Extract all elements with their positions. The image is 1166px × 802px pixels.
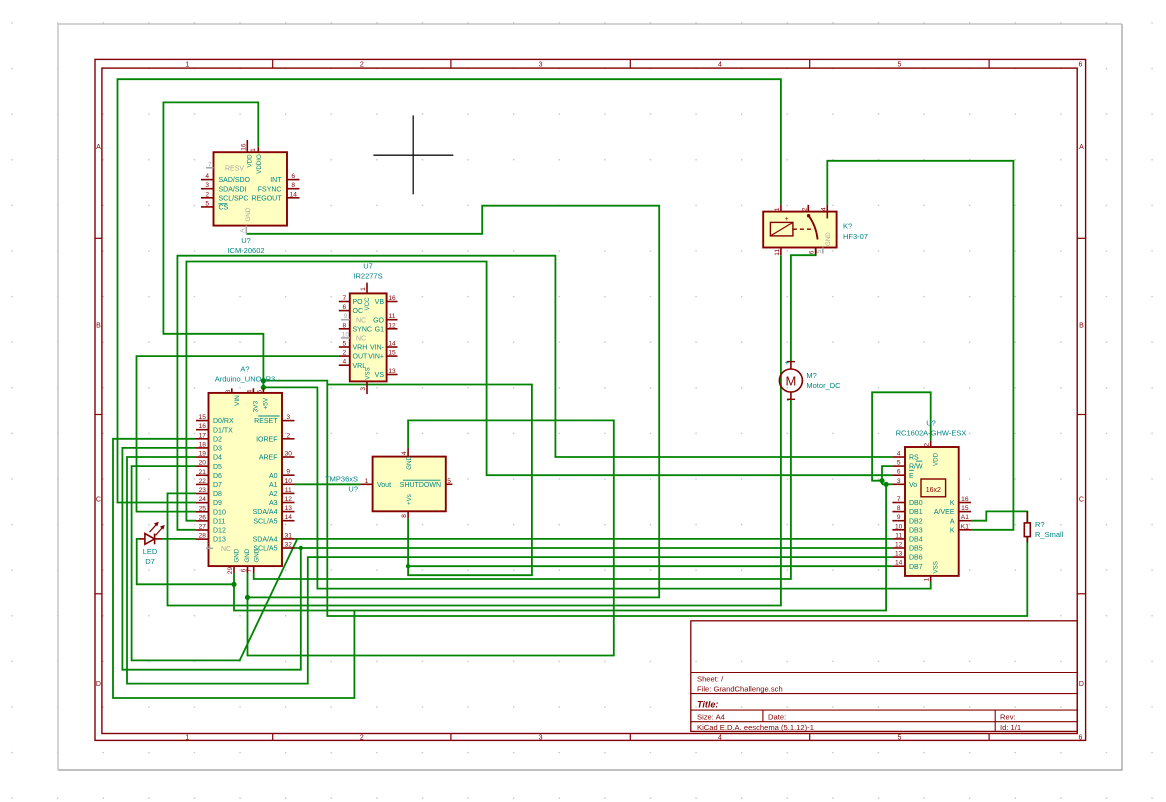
svg-text:HF3-07: HF3-07 [843,232,868,241]
svg-text:D: D [96,681,101,688]
svg-text:SDA/SDI: SDA/SDI [219,186,247,193]
svg-text:25: 25 [199,505,207,512]
svg-text:LED: LED [143,547,158,556]
led D7 [145,534,155,545]
ic U? TMP36xS [373,457,446,512]
svg-text:Vout: Vout [377,482,391,489]
svg-text:6: 6 [809,250,816,254]
svg-text:A: A [96,144,101,151]
svg-text:A?: A? [240,365,249,374]
svg-text:24: 24 [199,496,207,503]
svg-text:PO: PO [353,299,364,306]
svg-text:4: 4 [897,451,901,458]
svg-text:A/VEE: A/VEE [934,509,955,516]
svg-text:GND: GND [825,232,832,246]
svg-text:VRH: VRH [353,345,368,352]
svg-text:3: 3 [539,62,543,69]
svg-text:D4: D4 [213,455,222,462]
relay coil box [770,222,793,236]
svg-text:6: 6 [1079,62,1083,69]
junction DB5 [299,546,303,550]
svg-text:GND: GND [233,548,240,562]
svg-text:5: 5 [447,478,451,485]
svg-text:1: 1 [185,734,189,741]
svg-text:4: 4 [718,62,722,69]
svg-text:1: 1 [250,148,257,152]
svg-text:Size: A4: Size: A4 [697,712,725,721]
svg-text:Vo: Vo [909,482,917,489]
svg-text:VDD: VDD [932,452,939,466]
svg-text:K: K [950,527,955,534]
svg-text:22: 22 [199,478,207,485]
svg-text:7: 7 [897,496,901,503]
svg-text:4: 4 [205,173,209,180]
svg-text:19: 19 [199,451,207,458]
svg-text:U?: U? [926,419,936,428]
svg-text:REGOUT: REGOUT [252,195,283,202]
svg-text:TMP36xS: TMP36xS [325,475,358,484]
svg-text:6: 6 [1079,734,1083,741]
svg-text:RESET: RESET [254,418,278,425]
svg-text:21: 21 [199,469,207,476]
svg-text:8: 8 [897,505,901,512]
svg-text:D8: D8 [213,491,222,498]
svg-text:CS: CS [219,205,229,212]
svg-text:3: 3 [205,182,209,189]
svg-text:3V3: 3V3 [253,401,260,413]
svg-text:VIN+: VIN+ [368,354,384,361]
svg-text:4: 4 [820,207,827,211]
svg-text:SHUTDOWN: SHUTDOWN [400,482,441,489]
sheet frame inner border [102,68,1077,733]
svg-text:A: A [1079,144,1084,151]
svg-text:12: 12 [285,496,293,503]
svg-text:13: 13 [895,551,903,558]
svg-text:Arduino_UNO_R3: Arduino_UNO_R3 [215,375,275,384]
wire Arduino D8 to relay pin11 [168,255,781,605]
svg-text:Date:: Date: [768,712,786,721]
wire LED cathode to D13 [162,538,196,540]
svg-text:D2: D2 [213,436,222,443]
svg-text:14: 14 [895,560,903,567]
svg-text:20: 20 [199,460,207,467]
ic A? Arduino UNO R3 [209,393,283,566]
svg-text:5: 5 [897,460,901,467]
svg-text:9: 9 [286,469,290,476]
svg-text:9: 9 [344,313,348,320]
svg-text:DB6: DB6 [909,555,923,562]
svg-text:R?: R? [1035,520,1045,529]
svg-text:1: 1 [774,207,781,211]
svg-text:GND: GND [245,207,252,221]
svg-text:8: 8 [225,389,232,393]
svg-text:D6: D6 [213,473,222,480]
wire +5V branch B to LCD VSS [263,387,930,588]
relay pins [780,205,782,212]
svg-text:11: 11 [389,313,396,320]
svg-text:+: + [785,358,790,367]
svg-text:3: 3 [897,478,901,485]
wire LCD Vo junction link [881,481,883,485]
svg-text:16: 16 [199,423,207,430]
Arduino pins [196,420,209,422]
svg-text:4: 4 [718,734,722,741]
svg-text:18: 18 [199,441,207,448]
wire Arduino D2 to GND nest [113,439,354,698]
svg-text:Sheet: /: Sheet: / [697,675,724,684]
relay K? HF3-07 [763,212,836,248]
svg-text:1: 1 [924,578,931,582]
svg-text:D7: D7 [213,482,222,489]
wire Arduino D12 to LCD RS [177,256,892,530]
wire Arduino D11 to LCD E [186,262,892,521]
junction Vo b [884,482,889,487]
U7 pins [366,283,368,294]
svg-text:+5V: +5V [263,397,270,409]
svg-text:NC: NC [221,546,231,553]
svg-text:RC1602A-GHW-ESX: RC1602A-GHW-ESX [896,429,967,438]
lcd U? RC1602A-GHW-ESX [905,447,959,576]
wire LED anode loop to GND29 [137,539,234,584]
svg-text:5: 5 [256,389,263,393]
junction Vo a [879,478,884,483]
wire LCD DB5 line [301,547,893,549]
svg-text:14: 14 [388,341,396,348]
crosshair marker [373,154,453,156]
svg-text:DB2: DB2 [909,518,923,525]
svg-text:2: 2 [286,432,290,439]
LCD pins [892,456,905,458]
svg-text:A0: A0 [269,473,278,480]
relay dashed link [793,228,812,230]
svg-text:+: + [785,216,789,223]
svg-text:GO: GO [373,317,384,324]
svg-text:K1: K1 [961,523,969,530]
svg-text:U?: U? [348,485,358,494]
svg-text:3: 3 [286,414,290,421]
svg-text:D3: D3 [213,446,222,453]
svg-text:VDD: VDD [247,154,254,168]
svg-text:1: 1 [185,62,189,69]
wire motor plus to relay pin6 [791,248,816,362]
svg-text:2: 2 [924,443,931,447]
svg-text:OUT: OUT [353,354,369,361]
svg-text:A1: A1 [961,514,969,521]
resistor R? R_Small [1024,523,1030,537]
svg-text:VIN: VIN [234,395,241,406]
svg-text:13: 13 [285,505,293,512]
svg-text:5: 5 [205,200,209,207]
svg-text:31: 31 [285,532,293,539]
svg-text:C: C [1079,497,1084,504]
svg-text:GND: GND [406,456,413,470]
svg-text:DB7: DB7 [909,564,923,571]
wire GND6 to ICM GND [246,206,659,598]
svg-text:A2: A2 [269,491,278,498]
svg-text:VB: VB [375,299,385,306]
junction DB7 on +Vs riser [406,564,410,568]
svg-text:+Vs: +Vs [406,494,413,505]
svg-text:10: 10 [285,478,293,485]
svg-text:6: 6 [291,173,295,180]
frame row ticks [95,237,102,239]
wire LCD R/W loop [882,466,892,481]
wire LCD DB4 line [295,538,893,540]
svg-text:26: 26 [199,514,207,521]
svg-text:1: 1 [208,542,212,549]
svg-text:8: 8 [291,182,295,189]
svg-text:NC: NC [356,336,366,343]
svg-text:RS: RS [909,455,919,462]
svg-text:5: 5 [897,734,901,741]
svg-text:1: 1 [365,478,369,485]
relay armature [809,216,818,240]
svg-text:SDA/A4: SDA/A4 [253,509,278,516]
svg-text:U?: U? [241,236,251,245]
ic U? ICM-20602 [214,152,288,225]
wire relay pin1 to Arduino D9 [118,79,781,502]
svg-text:VIN-: VIN- [370,345,385,352]
svg-text:11: 11 [774,249,781,256]
svg-text:3: 3 [360,387,367,391]
svg-text:FSYNC: FSYNC [258,186,282,193]
svg-text:B: B [96,322,101,329]
svg-text:DB4: DB4 [909,537,923,544]
wire Arduino GND pin29 down to Vo riser [234,484,886,610]
svg-text:R_Small: R_Small [1035,530,1064,539]
svg-text:10: 10 [342,331,350,338]
svg-text:23: 23 [199,487,207,494]
svg-text:OC: OC [353,308,364,315]
motor M? Motor_DC [779,369,802,392]
svg-text:Id: 1/1: Id: 1/1 [1000,723,1021,732]
svg-text:14: 14 [285,514,293,521]
svg-text:32: 32 [285,542,293,549]
svg-text:29: 29 [227,567,234,575]
svg-text:2: 2 [205,191,209,198]
title block [691,621,1077,732]
svg-text:D: D [1079,681,1084,688]
svg-text:A1: A1 [269,482,278,489]
wire TMP36 Vout to Arduino A1 [295,483,361,485]
svg-text:SAD/SDO: SAD/SDO [219,177,251,184]
svg-text:DB0: DB0 [909,500,923,507]
svg-text:KiCad E.D.A. eeschema (5.1.12: KiCad E.D.A. eeschema (5.1.12)-1 [697,723,814,732]
svg-text:2: 2 [801,207,808,211]
svg-text:INT: INT [270,177,282,184]
wire Arduino GND pin6 to TMP36 GND [248,420,614,655]
junction +5V lower [261,385,266,390]
svg-text:16: 16 [388,295,396,302]
sheet frame outer border [95,59,1086,740]
svg-text:1: 1 [360,287,367,291]
svg-text:VCC: VCC [364,297,371,311]
wire Arduino D3 riser to pin32 DB5 [122,448,300,670]
wire U7 VSS bottom line to TMP36 +Vs [327,385,532,576]
svg-text:AREF: AREF [259,455,278,462]
svg-text:M: M [785,374,796,389]
svg-text:2: 2 [360,734,364,741]
wire Arduino D4 to LCD DB6 [127,457,892,684]
svg-text:D1/TX: D1/TX [213,427,233,434]
svg-text:B: B [1079,322,1084,329]
svg-text:10: 10 [895,523,903,530]
svg-text:D7: D7 [145,557,155,566]
wire LCD DB7 line [408,565,892,567]
wire relay pin4 to LCD K1 [827,161,1013,530]
junction GND6 [245,595,250,600]
svg-text:NC: NC [356,317,366,324]
svg-text:12: 12 [895,542,903,549]
svg-text:Rev:: Rev: [1000,712,1016,721]
svg-text:E: E [909,473,914,480]
svg-text:5: 5 [897,62,901,69]
svg-text:RESV: RESV [225,165,244,172]
svg-text:R/W: R/W [909,464,923,471]
svg-text:D11: D11 [213,518,225,525]
svg-text:A3: A3 [269,500,278,507]
svg-text:9: 9 [897,514,901,521]
TMP36 pins [360,483,372,485]
svg-text:SCL/SPC: SCL/SPC [219,195,249,202]
svg-text:27: 27 [199,524,207,531]
svg-text:6: 6 [897,469,901,476]
svg-text:12: 12 [388,322,396,329]
svg-text:7: 7 [246,568,253,572]
svg-text:U7: U7 [363,262,373,271]
svg-text:ICM-20602: ICM-20602 [227,246,264,255]
wire LCD VDD loop [872,392,931,480]
svg-text:VS: VS [375,372,385,379]
svg-text:16: 16 [961,496,969,503]
svg-text:Title:: Title: [697,700,718,710]
svg-text:DB1: DB1 [909,509,923,516]
svg-text:17: 17 [199,432,207,439]
svg-text:D12: D12 [213,528,226,535]
svg-text:13: 13 [388,368,396,375]
svg-text:D5: D5 [213,464,222,471]
junction +5V upper [261,378,266,383]
svg-text:2: 2 [360,62,364,69]
wire +5V branch A to R_Small bottom [263,381,1027,616]
svg-text:8: 8 [342,322,346,329]
svg-text:15: 15 [199,414,207,421]
svg-text:11: 11 [285,487,292,494]
wire LCD A1 to R_Small top [971,511,1027,523]
svg-text:M?: M? [806,371,816,380]
svg-text:15: 15 [388,350,396,357]
svg-text:SYNC: SYNC [353,326,372,333]
svg-text:VSS: VSS [932,561,939,573]
svg-text:5: 5 [342,341,346,348]
svg-text:16x2: 16x2 [926,487,941,494]
svg-text:6: 6 [342,304,346,311]
svg-text:4: 4 [342,359,346,366]
svg-text:GND: GND [244,548,251,562]
svg-text:D13: D13 [213,537,226,544]
svg-text:A: A [239,228,246,233]
ICM pins [246,140,248,152]
svg-text:28: 28 [199,533,207,540]
svg-text:DB5: DB5 [909,546,923,553]
svg-text:K: K [950,500,955,507]
svg-text:G1: G1 [375,326,384,333]
svg-text:SDA/A4: SDA/A4 [253,537,278,544]
frame column ticks [272,59,274,68]
svg-text:SCL/A5: SCL/A5 [253,518,277,525]
svg-text:DB3: DB3 [909,527,923,534]
svg-text:IOREF: IOREF [256,436,277,443]
lcd 16x2 box [921,479,946,497]
svg-text:IR2277S: IR2277S [353,272,382,281]
svg-text:C: C [96,497,101,504]
svg-text:30: 30 [285,451,293,458]
svg-text:File: GrandChallenge.sch: File: GrandChallenge.sch [697,685,783,694]
svg-text:2: 2 [342,350,346,357]
wire Arduino GND pin7 to motor minus [254,399,791,579]
svg-text:7: 7 [342,295,346,302]
wire Arduino D5 to diagonal [132,466,298,660]
svg-text:4: 4 [246,389,253,393]
svg-text:11: 11 [895,532,902,539]
svg-text:K?: K? [843,222,852,231]
svg-text:7: 7 [208,161,212,168]
svg-text:16: 16 [240,143,247,151]
svg-text:Motor_DC: Motor_DC [806,381,841,390]
svg-text:GND: GND [253,548,260,562]
wire +5V to ICM VDDIO loop [163,102,263,388]
svg-text:4: 4 [401,451,408,455]
svg-text:15: 15 [961,505,969,512]
svg-text:5: 5 [816,249,823,253]
svg-text:14: 14 [290,191,298,198]
wire Arduino D10 to U7 OUT [137,356,339,512]
svg-text:D9: D9 [213,500,222,507]
svg-text:VRL: VRL [353,363,367,370]
svg-text:D0/RX: D0/RX [213,418,234,425]
svg-text:D10: D10 [213,509,226,516]
svg-text:8: 8 [401,514,408,518]
junction GND29 LED [231,582,236,587]
svg-text:3: 3 [539,734,543,741]
ic U7 IR2277S [350,293,387,381]
svg-text:VDDIO: VDDIO [256,154,263,174]
svg-text:A: A [950,518,955,525]
